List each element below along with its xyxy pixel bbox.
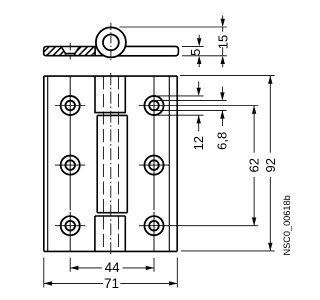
svg-text:62: 62	[247, 158, 262, 172]
svg-text:15: 15	[215, 35, 230, 49]
extension lines hole dia 6.8	[156, 101, 227, 111]
svg-text:6,8: 6,8	[214, 132, 229, 150]
countersink center line (top view)	[69, 43, 71, 60]
dim 15 arrows	[222, 16, 224, 68]
countersunk hole mid-right (front view)	[144, 156, 163, 175]
knuckle bottom section	[95, 216, 125, 251]
hinge top section view: left leaf plate (hatched cut)	[44, 47, 104, 56]
extension line leaf bottom (dims 5,15)	[182, 55, 227, 57]
left leaf inner edge line	[47, 76, 49, 251]
right leaf inner edge line	[168, 76, 170, 251]
extension lines holes (dim 44)	[70, 258, 154, 272]
pin hidden line right	[118, 77, 120, 252]
extension line leaf top (dim 5)	[182, 45, 204, 47]
right hole column center line	[153, 76, 155, 251]
extension line view bottom (dim 92)	[181, 250, 275, 252]
knuckle middle section	[97, 115, 127, 212]
countersunk hole top-left (front view)	[61, 96, 80, 115]
dim 71 line and arrows	[44, 282, 178, 284]
knuckle top section	[95, 76, 125, 113]
hole horizontal center line right middle	[139, 164, 169, 166]
extension line view top (dim 92)	[180, 75, 275, 77]
svg-text:44: 44	[105, 260, 121, 275]
svg-text:5: 5	[188, 49, 203, 56]
countersunk hole (section) in left plate	[61, 47, 80, 56]
dim 44 line and arrows	[70, 267, 154, 269]
pin hole inner circle (top view)	[103, 35, 119, 51]
dim 5 arrows	[198, 35, 200, 67]
countersunk hole top-right (front view)	[144, 96, 163, 115]
dim 62 line and arrows	[253, 106, 255, 226]
svg-text:NSC0_00618b: NSC0_00618b	[282, 195, 292, 255]
pin hidden line left	[102, 77, 104, 252]
right leaf (top view, flat plate with rounded end)	[117, 46, 178, 55]
left hole column center line	[69, 76, 71, 251]
svg-text:92: 92	[263, 158, 278, 172]
extension lines hole dia 12	[155, 96, 204, 115]
front view outline	[44, 76, 177, 251]
hatching of sectioned left plate	[39, 45, 102, 57]
dim 6.8 arrows and leader	[221, 87, 223, 127]
countersunk hole mid-left (front view)	[61, 156, 80, 175]
svg-text:12: 12	[191, 136, 206, 150]
knuckle vertical center line (top view)	[110, 23, 112, 62]
extension lines view edges (dim 71)	[44, 258, 178, 288]
countersunk hole bottom-left (front view)	[61, 216, 80, 235]
hole horizontal center lines left column	[55, 106, 85, 226]
svg-text:71: 71	[104, 276, 119, 291]
pin center line	[110, 73, 112, 254]
countersunk hole bottom-right (front view)	[144, 216, 163, 235]
junction line plate/knuckle curl	[94, 47, 96, 56]
dim 12 arrows and leader	[198, 82, 200, 132]
extension line top hole row (dim 62)	[139, 105, 258, 107]
knuckle outer circle (top view)	[96, 27, 126, 57]
extension line bottom hole row (dim 62)	[139, 225, 258, 227]
dim 92 line and arrows	[269, 76, 271, 251]
extension line knuckle top (dim 15)	[120, 26, 227, 28]
